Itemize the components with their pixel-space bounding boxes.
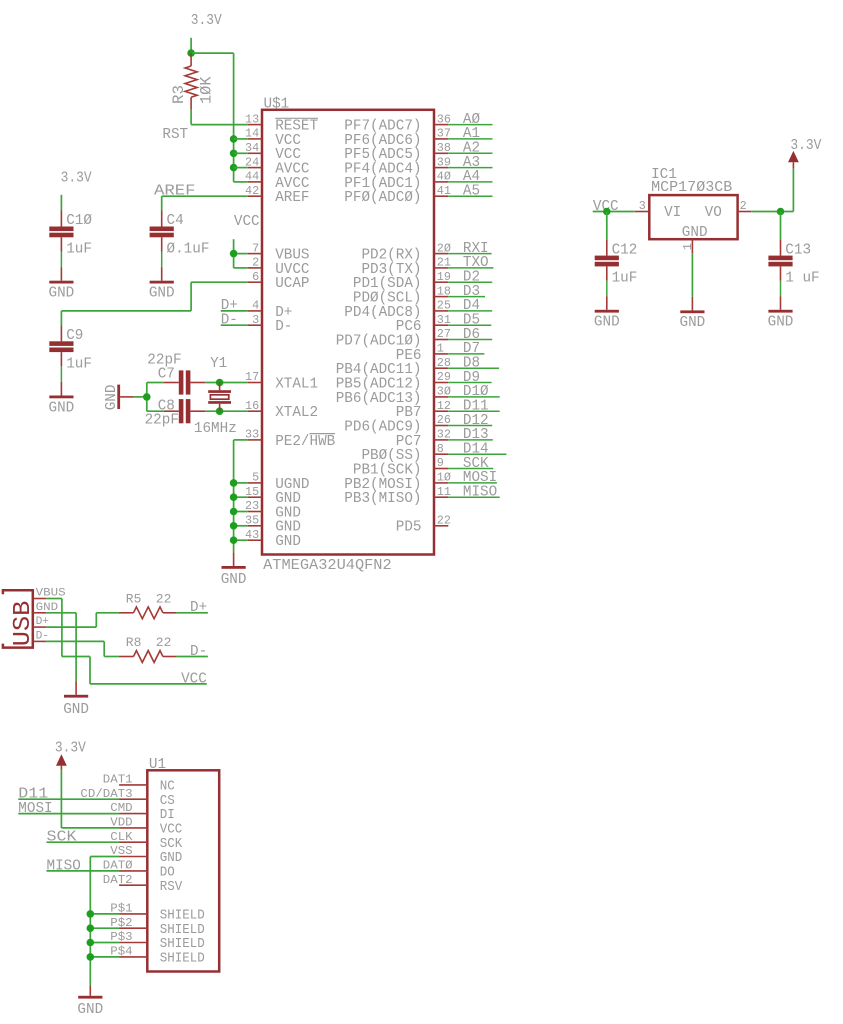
node junction pin14: [230, 135, 238, 143]
ground symbol below USB: [63, 681, 89, 718]
wire net D2: [448, 270, 492, 286]
wire crystal GND net: [133, 383, 164, 412]
crystal Y1 16MHz: [194, 356, 237, 437]
USB pin GND: [33, 602, 59, 614]
svg-text:D-: D-: [275, 319, 292, 335]
U$1 right pin 36 (PF7(ADC7)): [344, 112, 451, 134]
U$1 right pin 40 (PF1(ADC1)): [344, 170, 451, 192]
svg-text:GND: GND: [149, 286, 175, 302]
U$1 left pin 2 (UVCC): [248, 256, 310, 278]
svg-text:D-: D-: [221, 313, 238, 329]
ground symbol below C9: [49, 382, 75, 416]
svg-text:D+: D+: [190, 600, 207, 616]
U$1 left pin 16 (XTAL2): [245, 399, 318, 421]
U$1 left pin 17 (XTAL1): [245, 370, 318, 392]
U$1 left pin 5 (UGND): [248, 471, 310, 493]
svg-text:XTAL2: XTAL2: [275, 405, 318, 421]
svg-text:3: 3: [252, 313, 259, 327]
wire net D13: [448, 427, 493, 443]
U$1 right pin 8 (PB0(SS)): [361, 442, 448, 464]
wire 3.3V to U1 VCC: [61, 770, 119, 828]
wire net A1: [448, 126, 492, 142]
svg-text:1: 1: [681, 243, 695, 250]
U$1 right pin 32 (PC7): [396, 428, 451, 450]
wire net D8: [448, 356, 499, 372]
op-amp U$1 ATMEGA32U4QFN2 main IC box: [262, 110, 434, 555]
wire VCC to pins 7 and 2: [234, 239, 248, 268]
svg-text:DI: DI: [160, 808, 175, 823]
svg-text:Ø.1uF: Ø.1uF: [167, 242, 210, 258]
wire GND from C10: [60, 252, 62, 268]
wire net A5: [448, 184, 492, 200]
node junction U1 shield pin P$4: [87, 953, 95, 961]
U$1 left pin 24 (AVCC): [245, 155, 310, 177]
svg-text:VO: VO: [705, 205, 722, 221]
U$1 right pin 21 (PD3(TX)): [361, 256, 451, 278]
U$1 left pin 15 (GND): [245, 485, 301, 507]
svg-text:4: 4: [252, 299, 259, 313]
node junction GND pin row 27: [230, 508, 238, 516]
ground symbol below IC1: [680, 297, 706, 331]
svg-text:DO: DO: [160, 866, 175, 881]
wire XTAL2 net: [205, 410, 247, 412]
ground symbol below C12: [594, 296, 620, 330]
svg-text:R8: R8: [126, 635, 142, 650]
svg-text:MCP17Ø3CB: MCP17Ø3CB: [651, 180, 733, 196]
svg-text:GND: GND: [160, 851, 183, 866]
svg-text:C12: C12: [612, 242, 638, 258]
IC1 pin 3 (VI): [635, 199, 650, 213]
svg-text:UCAP: UCAP: [275, 276, 309, 292]
svg-text:MOSI: MOSI: [18, 801, 52, 817]
U$1 left pin 42 (AREF): [245, 184, 310, 206]
svg-text:GND: GND: [49, 286, 75, 302]
wire GND from C12: [606, 281, 608, 297]
wire net MISO to U1 DO: [47, 858, 120, 874]
wire net D- stub: [221, 313, 248, 329]
resistor R8 22: [119, 635, 176, 662]
svg-text:DAT1: DAT1: [103, 774, 133, 787]
wire net A0: [448, 112, 492, 128]
svg-text:D-: D-: [190, 644, 207, 660]
wire net SCK: [448, 456, 493, 472]
U$1 right pin 37 (PF6(ADC6)): [344, 127, 451, 149]
svg-text:GND: GND: [77, 1002, 103, 1018]
node junction XTAL1: [216, 379, 224, 387]
U$1 right pin 9 (PB1(SCK)): [353, 456, 448, 478]
svg-text:VI: VI: [664, 205, 681, 221]
svg-text:MISO: MISO: [47, 858, 81, 874]
U1 pin VDD (VCC): [110, 817, 182, 838]
wire IC1 pin1 to ground: [691, 253, 693, 296]
U$1 left pin 13 (RESET): [245, 112, 318, 134]
U$1 left pin 4 (D+): [248, 299, 293, 321]
svg-text:PB3(MISO): PB3(MISO): [344, 491, 421, 507]
node junction XTAL2: [216, 407, 224, 415]
ground symbol below C4: [149, 267, 175, 301]
ground symbol below C13: [768, 296, 794, 330]
svg-text:GND: GND: [680, 315, 706, 331]
wire net D6: [448, 327, 492, 343]
svg-text:R5: R5: [126, 592, 142, 607]
svg-text:16MHz: 16MHz: [194, 421, 237, 437]
svg-text:2: 2: [740, 199, 747, 213]
svg-text:AREF: AREF: [154, 184, 196, 200]
svg-text:GND: GND: [768, 315, 794, 331]
capacitor C8 22pF: [145, 398, 206, 428]
U$1 right pin 26 (PD6(ADC9)): [344, 413, 451, 435]
wire VCC into IC1: [593, 199, 635, 215]
ground symbol below C10: [49, 267, 75, 301]
svg-text:U1: U1: [149, 757, 166, 773]
U$1 right pin 38 (PF5(ADC5)): [344, 141, 451, 163]
wire GND from C13: [780, 281, 782, 297]
svg-text:1: 1: [437, 342, 444, 356]
wire net RXI: [448, 241, 491, 257]
wire net D3: [448, 284, 485, 300]
svg-text:XTAL1: XTAL1: [275, 376, 318, 392]
svg-text:22: 22: [156, 592, 172, 607]
wire net D9: [448, 370, 491, 386]
wire net TXO: [448, 255, 493, 271]
op-amp IC1 MCP1703CB regulator box: [649, 167, 737, 241]
U$1 right pin 10 (PB2(MOSI)): [344, 471, 451, 493]
svg-text:1uF: 1uF: [612, 271, 638, 287]
wire net A4: [448, 169, 492, 185]
svg-text:C9: C9: [66, 328, 83, 344]
svg-text:SCK: SCK: [160, 837, 183, 852]
capacitor C7 22pF: [147, 353, 205, 395]
svg-text:3.3V: 3.3V: [790, 138, 821, 154]
svg-text:GND: GND: [594, 315, 620, 331]
supply 3.3V (U1) arrow: [55, 741, 86, 770]
U1 pin DAT2 (RSV): [103, 874, 183, 895]
svg-text:3.3V: 3.3V: [55, 741, 86, 757]
IC1 pin 1 (GND): [681, 239, 695, 253]
wire GND from C4: [161, 252, 163, 268]
USB connector J1: [3, 590, 37, 647]
wire 3.3V vertical to junction: [190, 38, 192, 53]
svg-text:9: 9: [437, 456, 444, 470]
U$1 left pin 23 (GND): [245, 499, 301, 521]
svg-text:R3: R3: [170, 85, 188, 104]
wire net D5: [448, 313, 491, 329]
wire net MOSI to U1 DI: [18, 801, 119, 817]
svg-text:VCC: VCC: [160, 823, 183, 838]
op-amp U1 SD socket box: [147, 770, 219, 971]
svg-text:AREF: AREF: [275, 190, 309, 206]
wire GND from C9: [60, 366, 62, 382]
node junction GND-crystal: [143, 393, 151, 401]
USB pin D+: [33, 616, 50, 628]
U1 pin P$4 (SHIELD): [110, 946, 205, 967]
svg-text:6: 6: [252, 270, 259, 284]
wire USB D+ to R5: [46, 613, 119, 627]
ground symbol (crystal) rotated: [104, 385, 133, 411]
U$1 right pin 29 (PB5(ADC12)): [336, 370, 451, 392]
wire net D12: [448, 413, 492, 429]
svg-text:GND: GND: [49, 400, 75, 416]
wire net D14: [448, 442, 506, 458]
node junction U1 shield pin P$1: [87, 910, 95, 918]
U1 pin P$1 (SHIELD): [110, 903, 205, 924]
wire net MOSI: [448, 470, 497, 486]
svg-text:GND: GND: [275, 534, 301, 550]
node junction GND pin row 25: [230, 479, 238, 487]
U$1 right pin 11 (PB3(MISO)): [344, 485, 451, 507]
wire UCAP net: [61, 282, 247, 325]
node junction pin34: [230, 150, 238, 158]
svg-text:MISO: MISO: [463, 485, 497, 501]
svg-text:RSV: RSV: [160, 880, 183, 895]
ground symbol below U$1: [221, 552, 247, 588]
svg-text:1 uF: 1 uF: [785, 271, 819, 287]
svg-text:22: 22: [437, 514, 451, 528]
node junction GND pin row 26: [230, 493, 238, 501]
svg-text:GND: GND: [682, 225, 708, 241]
wire XTAL1 net: [205, 382, 247, 384]
U$1 left pin 6 (UCAP): [248, 270, 310, 292]
wire net A3: [448, 155, 492, 171]
svg-text:1uF: 1uF: [66, 242, 92, 258]
svg-text:2: 2: [252, 256, 259, 270]
node junction 3.3V/R3: [187, 49, 195, 57]
capacitor C4: [150, 211, 210, 258]
wire U1 ground net: [90, 857, 119, 986]
wire net D+ stub: [221, 298, 248, 314]
svg-text:GND: GND: [63, 702, 89, 718]
svg-text:C7: C7: [158, 366, 175, 382]
svg-text:SHIELD: SHIELD: [160, 923, 205, 938]
svg-text:DAT2: DAT2: [103, 874, 133, 887]
wire net MISO: [448, 485, 499, 501]
svg-text:CS: CS: [160, 794, 175, 809]
wire net SCK to U1 SCK: [47, 830, 120, 846]
node junction VCC/C12: [603, 208, 611, 216]
svg-text:1ØK: 1ØK: [197, 76, 215, 104]
wire USB D- to R8: [46, 641, 119, 656]
svg-text:VCC: VCC: [181, 671, 207, 687]
svg-text:PD5: PD5: [396, 520, 422, 536]
wire net D11: [448, 399, 499, 415]
node junction GND pin row 28: [230, 522, 238, 530]
U$1 left pin 35 (GND): [245, 514, 301, 536]
svg-text:VCC: VCC: [234, 214, 260, 230]
node junction U1 shield pin P$2: [87, 924, 95, 932]
svg-text:U$1: U$1: [264, 96, 290, 112]
USB pin D-: [33, 630, 49, 642]
U1 pin P$3 (SHIELD): [110, 931, 205, 952]
svg-text:3: 3: [639, 199, 646, 213]
wire net D- (after R8): [176, 644, 208, 660]
node junction VO/C13: [777, 208, 785, 216]
capacitor C13: [768, 240, 819, 287]
wire RST net: [162, 110, 247, 143]
capacitor C10: [49, 211, 92, 258]
svg-text:PFØ(ADCØ): PFØ(ADCØ): [344, 190, 421, 206]
wire C13 branch: [780, 212, 782, 240]
U$1 left pin 7 (VBUS): [248, 241, 310, 263]
wire net D11 to U1 CS: [18, 787, 119, 803]
U$1 left pin 34 (VCC): [245, 141, 301, 163]
svg-text:USB: USB: [10, 601, 37, 647]
ground symbol below U1: [77, 985, 103, 1018]
U$1 right pin 27 (PD7(ADC10)): [336, 327, 451, 349]
U$1 right pin 12 (PB7): [396, 399, 451, 421]
wire U$1 ground net: [234, 440, 248, 552]
wire net D4: [448, 298, 492, 314]
svg-text:22: 22: [156, 635, 172, 650]
svg-text:1uF: 1uF: [66, 356, 92, 372]
U$1 right pin 39 (PF4(ADC4)): [344, 155, 451, 177]
IC1 pin 2 (VO): [738, 199, 752, 213]
svg-text:GND: GND: [221, 572, 247, 588]
svg-text:A5: A5: [463, 184, 480, 200]
svg-text:C13: C13: [785, 242, 811, 258]
node junction GND pin row 29: [230, 536, 238, 544]
U$1 right pin 28 (PB4(ADC11)): [336, 356, 451, 378]
node junction U1 shield pin P$3: [87, 939, 95, 947]
wire 3.3V to VCC pins column: [191, 52, 234, 54]
U$1 left pin 14 (VCC): [245, 127, 301, 149]
wire C12 branch: [606, 212, 608, 240]
U$1 right pin 22 (PD5): [396, 514, 451, 536]
U1 pin P$2 (SHIELD): [110, 917, 205, 938]
svg-text:Y1: Y1: [210, 356, 227, 372]
U1 pin CLK (SCK): [110, 831, 183, 852]
svg-text:PE2/HWB: PE2/HWB: [275, 434, 335, 450]
U$1 left pin 33 (PE2/HWB): [245, 428, 336, 450]
U1 pin CMD (DI): [110, 802, 175, 823]
wire net A2: [448, 141, 492, 157]
U$1 right pin 25 (PD4(ADC8)): [344, 299, 451, 321]
USB pin VBUS: [33, 588, 66, 600]
U$1 right pin 20 (PD2(RX)): [361, 241, 451, 263]
svg-text:GND: GND: [104, 385, 120, 411]
wire net D10: [448, 384, 499, 400]
node junction pin 7: [230, 250, 238, 258]
supply 3.3V (IC1 output) arrow: [788, 138, 822, 168]
wire 3.3V to C10: [60, 195, 62, 211]
U$1 left pin 44 (AVCC): [245, 170, 310, 192]
U1 pin VSS (GND): [110, 845, 182, 866]
U$1 right pin 31 (PC6): [396, 313, 451, 335]
svg-text:RST: RST: [162, 127, 188, 143]
svg-text:5: 5: [252, 471, 259, 485]
svg-text:7: 7: [252, 241, 259, 255]
U1 pin CD/DAT3 (CS): [80, 788, 174, 809]
svg-text:SHIELD: SHIELD: [160, 937, 205, 952]
U$1 right pin 41 (PF0(ADC0)): [344, 184, 451, 206]
wire net D7: [448, 341, 484, 357]
U$1 left pin 3 (D-): [248, 313, 293, 335]
svg-text:ATMEGA32U4QFN2: ATMEGA32U4QFN2: [263, 558, 392, 574]
resistor R3 10K: [170, 53, 215, 110]
svg-text:3.3V: 3.3V: [191, 13, 222, 29]
capacitor C9: [49, 325, 92, 372]
wire USB GND: [46, 613, 76, 681]
svg-text:C1Ø: C1Ø: [66, 213, 92, 229]
U$1 left pin 43 (GND): [245, 528, 301, 550]
svg-text:SHIELD: SHIELD: [160, 909, 205, 924]
U1 pin DAT1 (NC): [103, 774, 175, 795]
svg-text:NC: NC: [160, 780, 175, 795]
resistor R5 22: [119, 592, 176, 619]
wire AREF net: [154, 184, 248, 211]
wire net D+ (after R5): [176, 600, 208, 616]
svg-text:C4: C4: [167, 213, 184, 229]
svg-text:SHIELD: SHIELD: [160, 952, 205, 967]
U1 pin DAT0 (DO): [103, 860, 175, 881]
U$1 right pin 19 (PD1(SDA)): [353, 270, 451, 292]
svg-text:22pF: 22pF: [145, 413, 179, 429]
U$1 right pin 30 (PB6(ADC13)): [336, 385, 451, 407]
svg-text:SCK: SCK: [47, 830, 77, 846]
wire stubs to VCC/AVCC pins: [234, 138, 248, 140]
svg-text:8: 8: [437, 442, 444, 456]
wire VBUS to VCC: [46, 599, 207, 688]
svg-text:3.3V: 3.3V: [61, 171, 92, 187]
node junction pin24: [230, 164, 238, 172]
U$1 right pin 18 (PD0(SCL)): [353, 284, 451, 306]
wire IC1 output to 3.3V: [751, 169, 793, 212]
U$1 right pin 1 (PE6): [396, 342, 449, 364]
capacitor C12: [595, 240, 638, 287]
